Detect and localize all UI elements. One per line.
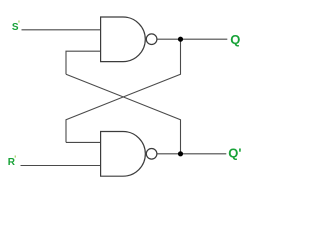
wire diagonal from Q' vertical to U1 input (66, 74, 181, 154)
svg-text:Q: Q (230, 32, 240, 47)
wire diagonal from Q vertical to U2 input (66, 39, 181, 142)
nand gate U1 (top) (101, 17, 157, 62)
svg-text:': ' (18, 20, 20, 29)
label R' (8, 155, 16, 169)
wire Q output (157, 38, 227, 40)
svg-text:': ' (14, 155, 16, 164)
wire S' input (22, 29, 102, 31)
wire feedback to U2 upper input (66, 141, 101, 143)
label S' (12, 20, 20, 33)
nand gate U2 (bottom) (101, 132, 157, 177)
svg-text:Q': Q' (228, 146, 241, 161)
node Q junction dot (178, 37, 183, 42)
wire feedback to U1 lower input (66, 51, 101, 74)
node Q' junction dot (178, 151, 183, 156)
wire Q' output (157, 153, 226, 155)
wire R' input (21, 165, 102, 167)
